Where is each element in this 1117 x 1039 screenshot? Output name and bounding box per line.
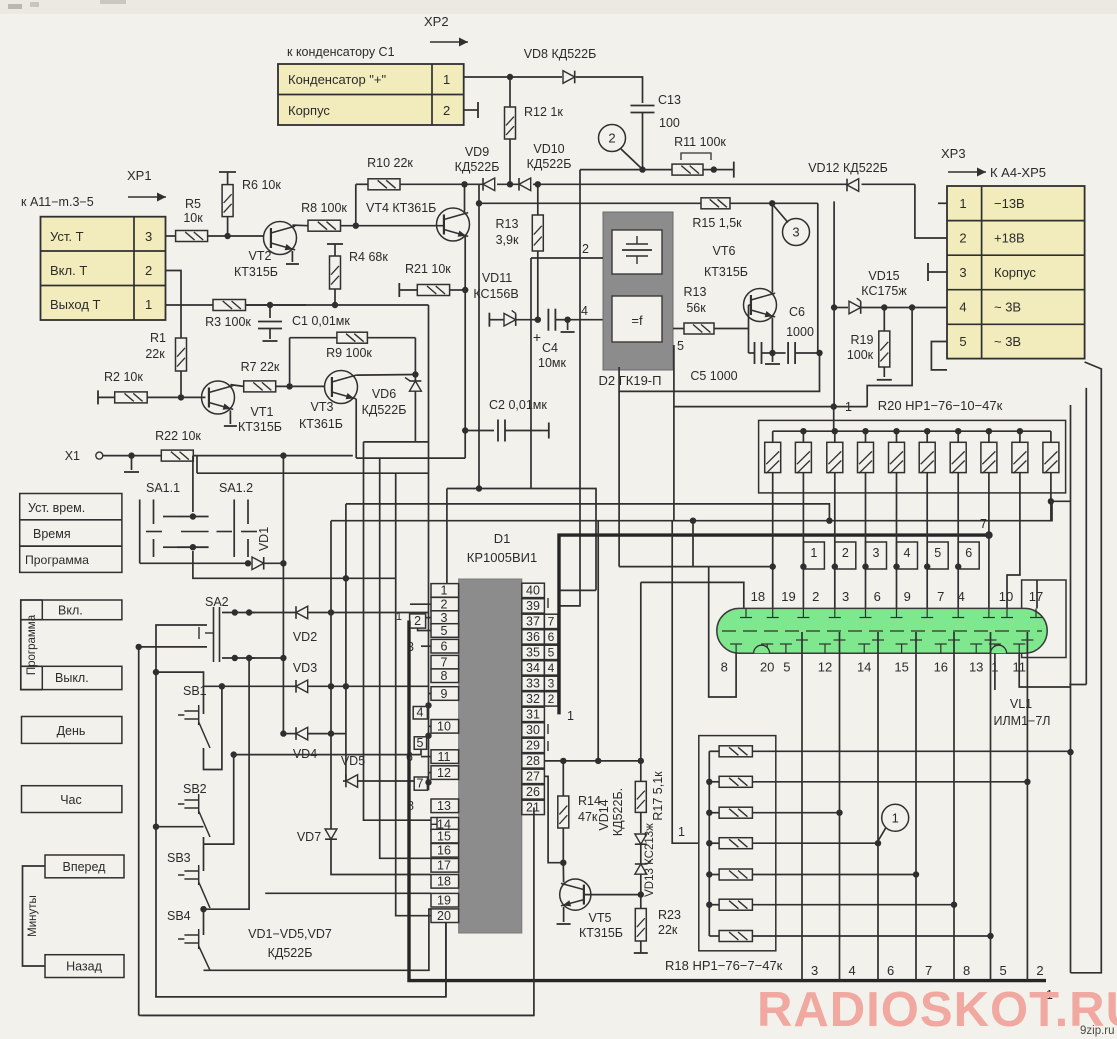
svg-text:R23: R23 — [658, 908, 681, 922]
node R1-R2-VT1 — [178, 394, 184, 400]
R18 feed stub net1 — [672, 521, 699, 844]
svg-text:5: 5 — [441, 624, 448, 638]
node R5-R6 — [224, 233, 230, 239]
svg-text:R13: R13 — [684, 285, 707, 299]
svg-text:~ 3В: ~ 3В — [994, 300, 1021, 315]
VL1 bottom bumps — [754, 645, 770, 653]
VT4 emitter wire up — [464, 184, 466, 212]
svg-text:КД522Б: КД522Б — [362, 403, 407, 417]
svg-text:2: 2 — [812, 589, 819, 604]
svg-text:Назад: Назад — [66, 960, 103, 974]
svg-text:15: 15 — [894, 660, 908, 675]
C2 right open terminal — [548, 423, 550, 439]
label box Chas — [22, 786, 122, 813]
svg-text:С2 0,01мк: С2 0,01мк — [489, 398, 547, 412]
svg-text:+18В: +18В — [994, 231, 1025, 246]
svg-text:КД522Б.: КД522Б. — [611, 788, 625, 836]
vacuum indicator VL1 tube — [717, 608, 1047, 653]
svg-text:6: 6 — [887, 963, 894, 978]
resistor R9 — [337, 332, 368, 343]
svg-text:VD13 КС213ж: VD13 КС213ж — [644, 823, 656, 897]
svg-text:40: 40 — [526, 584, 540, 598]
svg-text:5: 5 — [417, 736, 424, 750]
wire R20 res2 down — [802, 493, 804, 609]
Minuty bracket — [23, 866, 46, 966]
svg-text:2: 2 — [443, 103, 450, 118]
XP3 arrow — [948, 171, 986, 173]
diode VD1 — [252, 557, 264, 570]
svg-text:3: 3 — [548, 677, 555, 691]
svg-text:R19: R19 — [851, 333, 874, 347]
XP3 row5 wire — [931, 342, 947, 370]
capacitor C4 — [547, 309, 549, 331]
IC left pin boxes — [431, 584, 459, 598]
R18 resistors — [709, 750, 719, 752]
resistor R13 56k — [684, 323, 714, 334]
wire R20 res7 down — [957, 493, 959, 609]
svg-text:19: 19 — [437, 894, 451, 908]
node circle3 — [769, 200, 775, 206]
svg-text:32: 32 — [526, 692, 540, 706]
wire pin40 stub — [558, 589, 596, 591]
node XP2-R12 — [507, 74, 513, 80]
wire VD7 bottom — [331, 839, 431, 874]
resistor R3 — [213, 300, 246, 311]
pin30 tick — [547, 724, 549, 734]
svg-text:11: 11 — [438, 750, 451, 764]
node R4 bottom — [332, 302, 338, 308]
diode VD3 — [296, 680, 308, 693]
node VD3 x331 — [328, 683, 334, 689]
wire SB4 bottom L1 — [204, 909, 432, 970]
VT1 emitter ground — [229, 410, 231, 424]
svg-text:1: 1 — [567, 709, 574, 723]
riser to row473 — [196, 456, 198, 474]
svg-text:1: 1 — [959, 196, 966, 211]
SA2 bottom contact — [222, 657, 255, 659]
svg-text:4: 4 — [958, 589, 965, 604]
thick net7 line — [559, 535, 989, 714]
wire x331 column — [330, 521, 332, 734]
node rail521 x829 — [826, 518, 832, 524]
wire x598 riser — [597, 521, 599, 761]
quartz module D2 GK19-P body — [603, 212, 673, 370]
connector XP3 table — [947, 186, 1085, 359]
node VD13-R23 — [638, 891, 644, 897]
pin17 frame box — [1022, 580, 1066, 658]
wire rail 406 — [674, 406, 867, 408]
resistor R14 — [562, 761, 564, 796]
svg-text:1000: 1000 — [786, 325, 814, 339]
svg-text:19: 19 — [781, 589, 795, 604]
VT6 collector wire — [771, 203, 773, 292]
svg-text:10: 10 — [437, 720, 451, 734]
VT3 collector wire — [356, 374, 415, 377]
svg-text:2: 2 — [414, 614, 421, 628]
svg-text:КС156В: КС156В — [473, 287, 518, 301]
svg-text:20: 20 — [760, 660, 774, 675]
svg-text:21: 21 — [526, 801, 540, 815]
wire SA2 bottom right — [249, 657, 283, 659]
node x427 b — [425, 733, 431, 739]
svg-text:С4: С4 — [542, 341, 558, 355]
grid number box 4 — [897, 542, 918, 569]
diode VD5 — [346, 775, 358, 788]
svg-text:5: 5 — [548, 646, 555, 660]
svg-text:КР1005ВИ1: КР1005ВИ1 — [467, 550, 537, 565]
capacitor C13 — [631, 105, 655, 107]
svg-text:SA2: SA2 — [205, 595, 229, 609]
wire VD11 row — [488, 313, 490, 327]
diode VD11 — [504, 313, 516, 326]
node C6 right — [816, 350, 822, 356]
svg-text:4: 4 — [959, 300, 966, 315]
svg-text:12: 12 — [437, 766, 451, 780]
wire row 18-19 long — [265, 892, 431, 894]
svg-text:Уст. врем.: Уст. врем. — [28, 501, 85, 515]
left net box 5 — [414, 737, 426, 750]
svg-text:9: 9 — [904, 589, 911, 604]
node x427 a — [425, 702, 431, 708]
svg-text:SA1.1: SA1.1 — [146, 481, 180, 495]
transistor VT6 — [744, 289, 777, 322]
R11 trimmer bracket — [681, 153, 711, 160]
bottom frame L3 — [141, 1014, 534, 1016]
svg-text:2: 2 — [608, 131, 615, 146]
left net box 4 — [413, 707, 427, 720]
svg-text:4: 4 — [417, 706, 424, 720]
wire VD15 row — [834, 307, 848, 309]
svg-text:VD1: VD1 — [257, 527, 271, 551]
svg-text:36: 36 — [526, 630, 540, 644]
svg-text:Корпус: Корпус — [288, 103, 330, 118]
left net box 2 — [410, 614, 426, 628]
wire V2 left column — [156, 625, 207, 997]
node VD1 column top — [280, 452, 286, 458]
wire R20 res4 down — [865, 493, 867, 609]
svg-text:Выкл.: Выкл. — [55, 671, 89, 685]
svg-text:R17 5,1к: R17 5,1к — [651, 771, 665, 821]
wire VD2 right — [308, 612, 429, 614]
label box Vkl — [42, 600, 122, 620]
resistor R22 — [161, 450, 193, 461]
svg-text:R15 1,5к: R15 1,5к — [692, 216, 742, 230]
pin14-15 bracket — [436, 818, 438, 830]
svg-text:2: 2 — [1036, 963, 1043, 978]
node pin28 c — [638, 758, 644, 764]
svg-text:37: 37 — [526, 615, 540, 629]
wire SB2 net — [231, 751, 237, 757]
node R8-R10 — [353, 223, 359, 229]
svg-text:3: 3 — [441, 611, 448, 625]
wire SB3 top — [203, 844, 205, 871]
R11 right terminal — [703, 169, 714, 171]
R20 top bus — [773, 430, 1051, 432]
svg-text:КС175ж: КС175ж — [861, 284, 907, 298]
svg-text:VD2: VD2 — [293, 630, 317, 644]
SA1 contacts — [177, 516, 209, 518]
wire R20 res10 down — [1050, 493, 1052, 521]
svg-text:17: 17 — [1029, 589, 1043, 604]
svg-text:Корпус: Корпус — [994, 265, 1036, 280]
transistor VT2 — [264, 222, 297, 255]
node R12 bottom — [507, 181, 513, 187]
diode VD9 — [483, 178, 495, 191]
wire x395 column — [396, 473, 431, 916]
svg-text:1: 1 — [892, 810, 899, 825]
connector XP1 table — [41, 217, 166, 320]
node rail521 x693 — [690, 518, 696, 524]
svg-text:КД522Б: КД522Б — [268, 946, 313, 960]
svg-text:3: 3 — [959, 265, 966, 280]
diode VD13 zener — [640, 844, 642, 864]
svg-text:5: 5 — [959, 334, 966, 349]
node x427 c — [425, 779, 431, 785]
wire pin21 column — [141, 807, 534, 1015]
XP1 arrow — [128, 196, 166, 198]
wire SA2 bottom column x249 — [204, 658, 250, 909]
svg-text:20: 20 — [437, 909, 451, 923]
svg-text:SB2: SB2 — [183, 782, 207, 796]
capacitor C6 — [773, 352, 786, 354]
svg-text:7: 7 — [937, 589, 944, 604]
svg-text:5: 5 — [1000, 963, 1007, 978]
svg-text:7: 7 — [441, 656, 448, 670]
svg-text:22к: 22к — [145, 347, 165, 361]
pin39 tick — [547, 598, 549, 608]
svg-text:7: 7 — [548, 615, 555, 629]
wire rail 473 — [197, 472, 429, 474]
svg-text:R1: R1 — [150, 331, 166, 345]
svg-text:ХР3: ХР3 — [941, 146, 966, 161]
wire x446 column — [446, 489, 448, 584]
switch SA1.2 body — [233, 500, 235, 558]
D2 crystal window — [612, 230, 662, 274]
svg-text:ХР2: ХР2 — [424, 14, 449, 29]
svg-text:VT1: VT1 — [251, 405, 274, 419]
svg-text:13: 13 — [437, 799, 451, 813]
svg-text:7: 7 — [417, 777, 424, 791]
svg-text:RADIOSKOT.RU: RADIOSKOT.RU — [757, 983, 1117, 1037]
svg-text:VT2: VT2 — [249, 249, 272, 263]
wire x345 column — [345, 504, 347, 781]
wire rail 521 — [331, 501, 1052, 520]
svg-text:3: 3 — [873, 546, 880, 560]
svg-text:R12 1к: R12 1к — [524, 105, 563, 119]
diode VD8 — [563, 71, 575, 84]
circle net 3 — [783, 219, 810, 246]
wire SA1.2 bottom drop — [193, 551, 396, 578]
svg-text:2: 2 — [959, 231, 966, 246]
wire x379 column — [380, 458, 431, 858]
svg-text:VD10: VD10 — [533, 142, 564, 156]
wire VD4 row — [283, 733, 296, 735]
wire rail 504 — [346, 504, 830, 521]
svg-text:SA1.2: SA1.2 — [219, 481, 253, 495]
svg-text:Вкл.: Вкл. — [58, 604, 83, 618]
node VD2 x331 — [328, 609, 334, 615]
svg-text:R7 22к: R7 22к — [241, 360, 280, 374]
svg-text:Вперед: Вперед — [63, 860, 107, 874]
node 578 x345 — [343, 575, 349, 581]
wire XP2 pin1 to VD8 — [464, 76, 562, 78]
grid number box 1 — [803, 542, 824, 569]
svg-text:4: 4 — [904, 546, 911, 560]
resistor R6 — [227, 171, 229, 173]
resistor R11 — [580, 169, 672, 171]
wire SB1 top feed — [156, 672, 204, 714]
svg-text:Уст. Т: Уст. Т — [50, 229, 84, 244]
svg-text:VT5: VT5 — [589, 911, 612, 925]
svg-text:R20 НР1−76−10−47к: R20 НР1−76−10−47к — [878, 398, 1003, 413]
diode VD4 — [296, 727, 308, 740]
XP2 pin2 open stub — [464, 109, 478, 111]
node C4 ground stub — [564, 317, 570, 323]
wire pin28 row — [544, 760, 640, 762]
wire D2pin2 column — [530, 258, 532, 489]
display bottom columns — [801, 632, 803, 981]
wire SB1 bottom zigzag — [204, 686, 222, 769]
svg-text:Минуты: Минуты — [27, 895, 39, 937]
wire R20 res3 down — [834, 493, 836, 609]
svg-text:Х1: Х1 — [65, 449, 80, 463]
node V2 top — [153, 669, 159, 675]
svg-text:33: 33 — [526, 677, 540, 691]
wire D2 pin5 down stub — [673, 345, 675, 521]
svg-text:SB1: SB1 — [183, 684, 207, 698]
IC right secondary boxes — [544, 614, 558, 628]
svg-text:R18 НР1−76−7−47к: R18 НР1−76−7−47к — [665, 958, 783, 973]
wire rail B main — [464, 183, 483, 185]
svg-text:R9 100к: R9 100к — [326, 346, 372, 360]
svg-text:16: 16 — [934, 660, 948, 675]
XP3 pin3 ground stub — [928, 271, 947, 273]
resistor R17 — [640, 761, 642, 782]
svg-text:2: 2 — [441, 598, 448, 612]
wire x465 elbow — [356, 457, 465, 459]
grid number box 3 — [866, 542, 887, 569]
wire SA2 top to VD2 — [249, 612, 296, 614]
resistor R7 — [230, 385, 243, 387]
svg-text:R10 22к: R10 22к — [367, 156, 413, 170]
wire x479 column — [478, 203, 480, 488]
wire x834 column — [833, 201, 835, 406]
svg-text:VL1: VL1 — [1010, 697, 1032, 711]
diode VD7 — [330, 734, 332, 829]
svg-text:3: 3 — [145, 229, 152, 244]
wire R9 row elbow — [289, 338, 291, 387]
svg-text:VD1−VD5,VD7: VD1−VD5,VD7 — [248, 927, 332, 941]
D2 pin 2 wire — [531, 257, 603, 259]
svg-text:39: 39 — [526, 599, 540, 613]
terminal X1 — [96, 452, 103, 459]
node R21 right — [462, 287, 468, 293]
svg-text:С13: С13 — [658, 93, 681, 107]
wire R17 column top — [641, 582, 744, 608]
node VD3 x345 — [343, 683, 349, 689]
wire R20 res8 down — [988, 493, 990, 609]
svg-text:КТ361Б: КТ361Б — [299, 417, 343, 431]
wire R20 res6 down — [926, 493, 928, 609]
wire x619 column down — [618, 391, 620, 566]
svg-text:VT6: VT6 — [713, 244, 736, 258]
svg-text:−13В: −13В — [994, 196, 1025, 211]
node pin28 b — [595, 758, 601, 764]
oscillator frame bottom — [619, 353, 819, 391]
resistor R8 — [308, 220, 341, 231]
svg-text:34: 34 — [526, 661, 540, 675]
svg-text:15: 15 — [437, 829, 451, 843]
circle net 2 — [599, 125, 626, 152]
wire XP1 pin1 row — [166, 304, 214, 306]
svg-text:12: 12 — [818, 660, 832, 675]
svg-text:Конденсатор "+": Конденсатор "+" — [288, 72, 387, 87]
wire R20 res1 down — [772, 493, 774, 609]
R18 row wires — [776, 750, 1071, 752]
pin row stubs left — [410, 603, 431, 605]
svg-text:7: 7 — [980, 517, 987, 531]
svg-text:День: День — [57, 724, 86, 738]
svg-text:26: 26 — [526, 785, 540, 799]
node VD1 right — [280, 560, 286, 566]
label box Vykl — [42, 666, 122, 689]
svg-text:VD6: VD6 — [372, 387, 396, 401]
svg-text:4: 4 — [581, 304, 588, 318]
svg-text:56к: 56к — [686, 301, 706, 315]
node x1070 row1 — [1067, 749, 1073, 755]
svg-text:2: 2 — [582, 242, 589, 256]
wire node to pin17 box — [1051, 500, 1071, 502]
svg-text:31: 31 — [526, 708, 540, 722]
node R13 top — [535, 181, 541, 187]
node R19 top — [881, 304, 887, 310]
svg-text:Программа: Программа — [25, 553, 89, 567]
wire rail C — [478, 184, 480, 203]
svg-text:С1 0,01мк: С1 0,01мк — [292, 314, 350, 328]
IC D1 body — [459, 579, 522, 933]
svg-text:14: 14 — [857, 660, 871, 675]
svg-text:R13: R13 — [496, 217, 519, 231]
svg-text:1: 1 — [678, 825, 685, 839]
wire x363 column — [364, 442, 432, 820]
svg-text:35: 35 — [526, 646, 540, 660]
R20 resistors — [772, 431, 774, 442]
svg-text:27: 27 — [526, 770, 540, 784]
svg-text:VD14: VD14 — [597, 799, 611, 830]
D2 f window — [612, 296, 662, 342]
wire row4 to rail 406 — [867, 308, 912, 407]
diode VD15 — [849, 301, 861, 314]
wire XP1 pin2 to R1 — [166, 271, 182, 339]
VL1 bottom electrodes — [735, 644, 737, 653]
VL1 top electrodes — [745, 608, 747, 617]
svg-text:D2 ГК19-П: D2 ГК19-П — [599, 373, 662, 388]
node rail489 — [476, 485, 482, 491]
wire x428 column — [428, 305, 430, 790]
node R14 bottom — [560, 860, 566, 866]
VT2 emitter ground — [291, 251, 293, 262]
IC right pin boxes — [522, 583, 545, 597]
grid number box 6 — [958, 542, 979, 569]
svg-text:Программа: Программа — [26, 614, 38, 675]
transistor VT1 — [202, 381, 235, 414]
top edge specks — [8, 4, 22, 9]
node VD4 x331 — [328, 730, 334, 736]
transistor VT3 — [325, 371, 358, 404]
grid number box 5 — [927, 542, 948, 569]
svg-text:2: 2 — [842, 546, 849, 560]
capacitor C2 — [465, 430, 494, 432]
